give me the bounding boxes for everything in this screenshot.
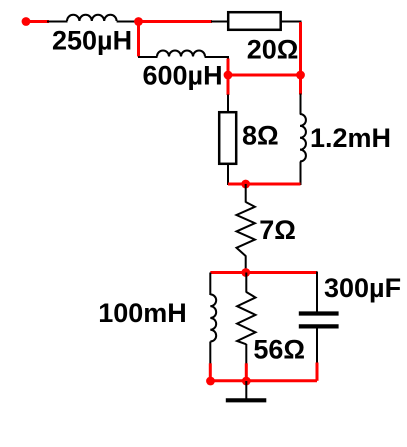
- wire black L1 to node A: [117, 21, 137, 23]
- node F junction dot: [206, 377, 215, 386]
- svg-text:20Ω: 20Ω: [247, 34, 299, 64]
- wire black node E to R4: [245, 273, 247, 293]
- wire black C1 lower lead: [316, 329, 318, 364]
- node C junction dot: [224, 71, 233, 80]
- svg-text:300µF: 300µF: [324, 273, 401, 303]
- wire black R4 lower lead: [245, 344, 247, 364]
- svg-text:100mH: 100mH: [98, 298, 187, 328]
- wire black lead to L2: [138, 56, 158, 58]
- svg-text:7Ω: 7Ω: [259, 215, 296, 245]
- svg-text:600µH: 600µH: [143, 61, 223, 91]
- wire black R2 to bottom rail: [227, 164, 229, 185]
- wire black L4 lower lead: [209, 342, 211, 365]
- svg-text:8Ω: 8Ω: [242, 121, 279, 151]
- inductor L4 100mH coil: [210, 294, 216, 341]
- wire black R1 to corner: [282, 21, 302, 23]
- wire black R3 to node E: [245, 256, 247, 273]
- wire red node A down to L2: [137, 22, 140, 57]
- wire black node E rail to C1: [316, 272, 318, 313]
- inductor L2 600uH coil: [157, 51, 205, 57]
- node A junction dot: [134, 17, 143, 26]
- inductor L3 1.2mH coil: [300, 114, 306, 162]
- svg-text:250µH: 250µH: [52, 25, 132, 55]
- resistor R4 56ohm zigzag: [237, 292, 255, 344]
- wire red node C to node B: [228, 74, 301, 77]
- wire red R4 to bottom rail: [245, 363, 248, 381]
- inductor L1 250uH coil: [67, 15, 117, 21]
- wire black node D to R3: [245, 184, 247, 203]
- node G junction dot: [242, 377, 251, 386]
- wire red right vertical to node B: [299, 22, 302, 95]
- ground symbol bar: [226, 398, 266, 402]
- wire black lead to R1: [211, 21, 228, 23]
- node input terminal: [22, 17, 31, 26]
- wire red node E rail: [210, 271, 317, 274]
- wire black lead to L4: [209, 273, 211, 296]
- wire black L2 to corner: [205, 57, 228, 60]
- svg-text:56Ω: 56Ω: [253, 334, 305, 364]
- wire red corner down to node C: [227, 59, 230, 96]
- resistor R2 8ohm box: [219, 112, 236, 164]
- wire red L4 to bottom rail: [209, 363, 212, 381]
- svg-text:1.2mH: 1.2mH: [310, 123, 391, 153]
- resistor R3 7ohm zigzag: [237, 202, 255, 256]
- node B junction dot: [296, 71, 305, 80]
- wire black lead to L3: [300, 94, 302, 115]
- node E junction dot: [241, 268, 250, 277]
- capacitor C1 bottom plate: [299, 324, 339, 328]
- wire black ground lead: [245, 381, 247, 399]
- node D junction dot: [241, 180, 250, 189]
- wire black L3 to bottom rail: [300, 162, 302, 186]
- wire red input to L1: [26, 20, 49, 23]
- wire black lead to L1: [47, 21, 68, 23]
- wire red bottom rail of middle loop: [228, 183, 301, 186]
- wire red C1 to bottom rail: [316, 363, 319, 381]
- wire red bottom rail: [209, 379, 317, 382]
- resistor R1 20ohm box: [228, 12, 281, 30]
- wire black lead to R2: [227, 95, 229, 113]
- capacitor C1 top plate: [299, 311, 339, 315]
- wire red node A to R1: [139, 20, 213, 23]
